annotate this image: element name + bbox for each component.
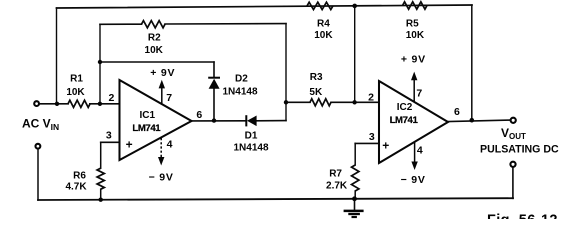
svg-text:4.7K: 4.7K: [65, 181, 87, 192]
svg-text:R7: R7: [329, 168, 342, 179]
svg-text:D2: D2: [235, 74, 248, 85]
svg-text:+: +: [126, 137, 133, 151]
svg-text:IC1: IC1: [140, 110, 156, 121]
svg-text:1N4148: 1N4148: [233, 143, 268, 154]
svg-text:IC2: IC2: [397, 102, 413, 113]
svg-text:R5: R5: [406, 18, 419, 29]
svg-text:10K: 10K: [314, 30, 333, 41]
svg-text:7: 7: [166, 92, 172, 104]
svg-text:2: 2: [108, 92, 114, 104]
svg-text:R4: R4: [317, 18, 330, 29]
svg-text:6: 6: [454, 106, 460, 118]
svg-text:3: 3: [106, 130, 112, 142]
svg-text:D1: D1: [245, 131, 258, 142]
svg-text:R1: R1: [70, 73, 83, 84]
svg-text:− 9V: − 9V: [401, 174, 426, 186]
svg-text:Fig. 56-12: Fig. 56-12: [487, 213, 558, 220]
svg-text:R2: R2: [148, 33, 161, 44]
svg-text:1N4148: 1N4148: [222, 87, 257, 98]
svg-text:10K: 10K: [406, 30, 425, 41]
svg-text:PULSATING DC: PULSATING DC: [480, 143, 559, 155]
svg-text:+ 9V: + 9V: [150, 67, 175, 79]
svg-text:4: 4: [417, 145, 423, 157]
svg-text:+ 9V: + 9V: [401, 54, 426, 66]
svg-text:AC VIN: AC VIN: [22, 117, 59, 133]
svg-text:LM741: LM741: [132, 123, 161, 134]
svg-text:R3: R3: [310, 72, 323, 83]
svg-text:4: 4: [167, 138, 173, 150]
svg-text:10K: 10K: [145, 45, 164, 56]
svg-text:5K: 5K: [309, 87, 323, 98]
svg-text:2: 2: [368, 91, 374, 103]
svg-text:2.7K: 2.7K: [326, 180, 348, 191]
svg-text:VOUT: VOUT: [501, 126, 526, 141]
svg-text:+: +: [382, 138, 389, 152]
svg-text:10K: 10K: [66, 87, 85, 98]
svg-text:R6: R6: [73, 171, 86, 182]
svg-text:3: 3: [369, 131, 375, 143]
svg-text:LM741: LM741: [390, 115, 419, 126]
svg-text:6: 6: [196, 109, 202, 121]
svg-text:− 9V: − 9V: [149, 171, 174, 183]
svg-text:7: 7: [416, 88, 422, 100]
